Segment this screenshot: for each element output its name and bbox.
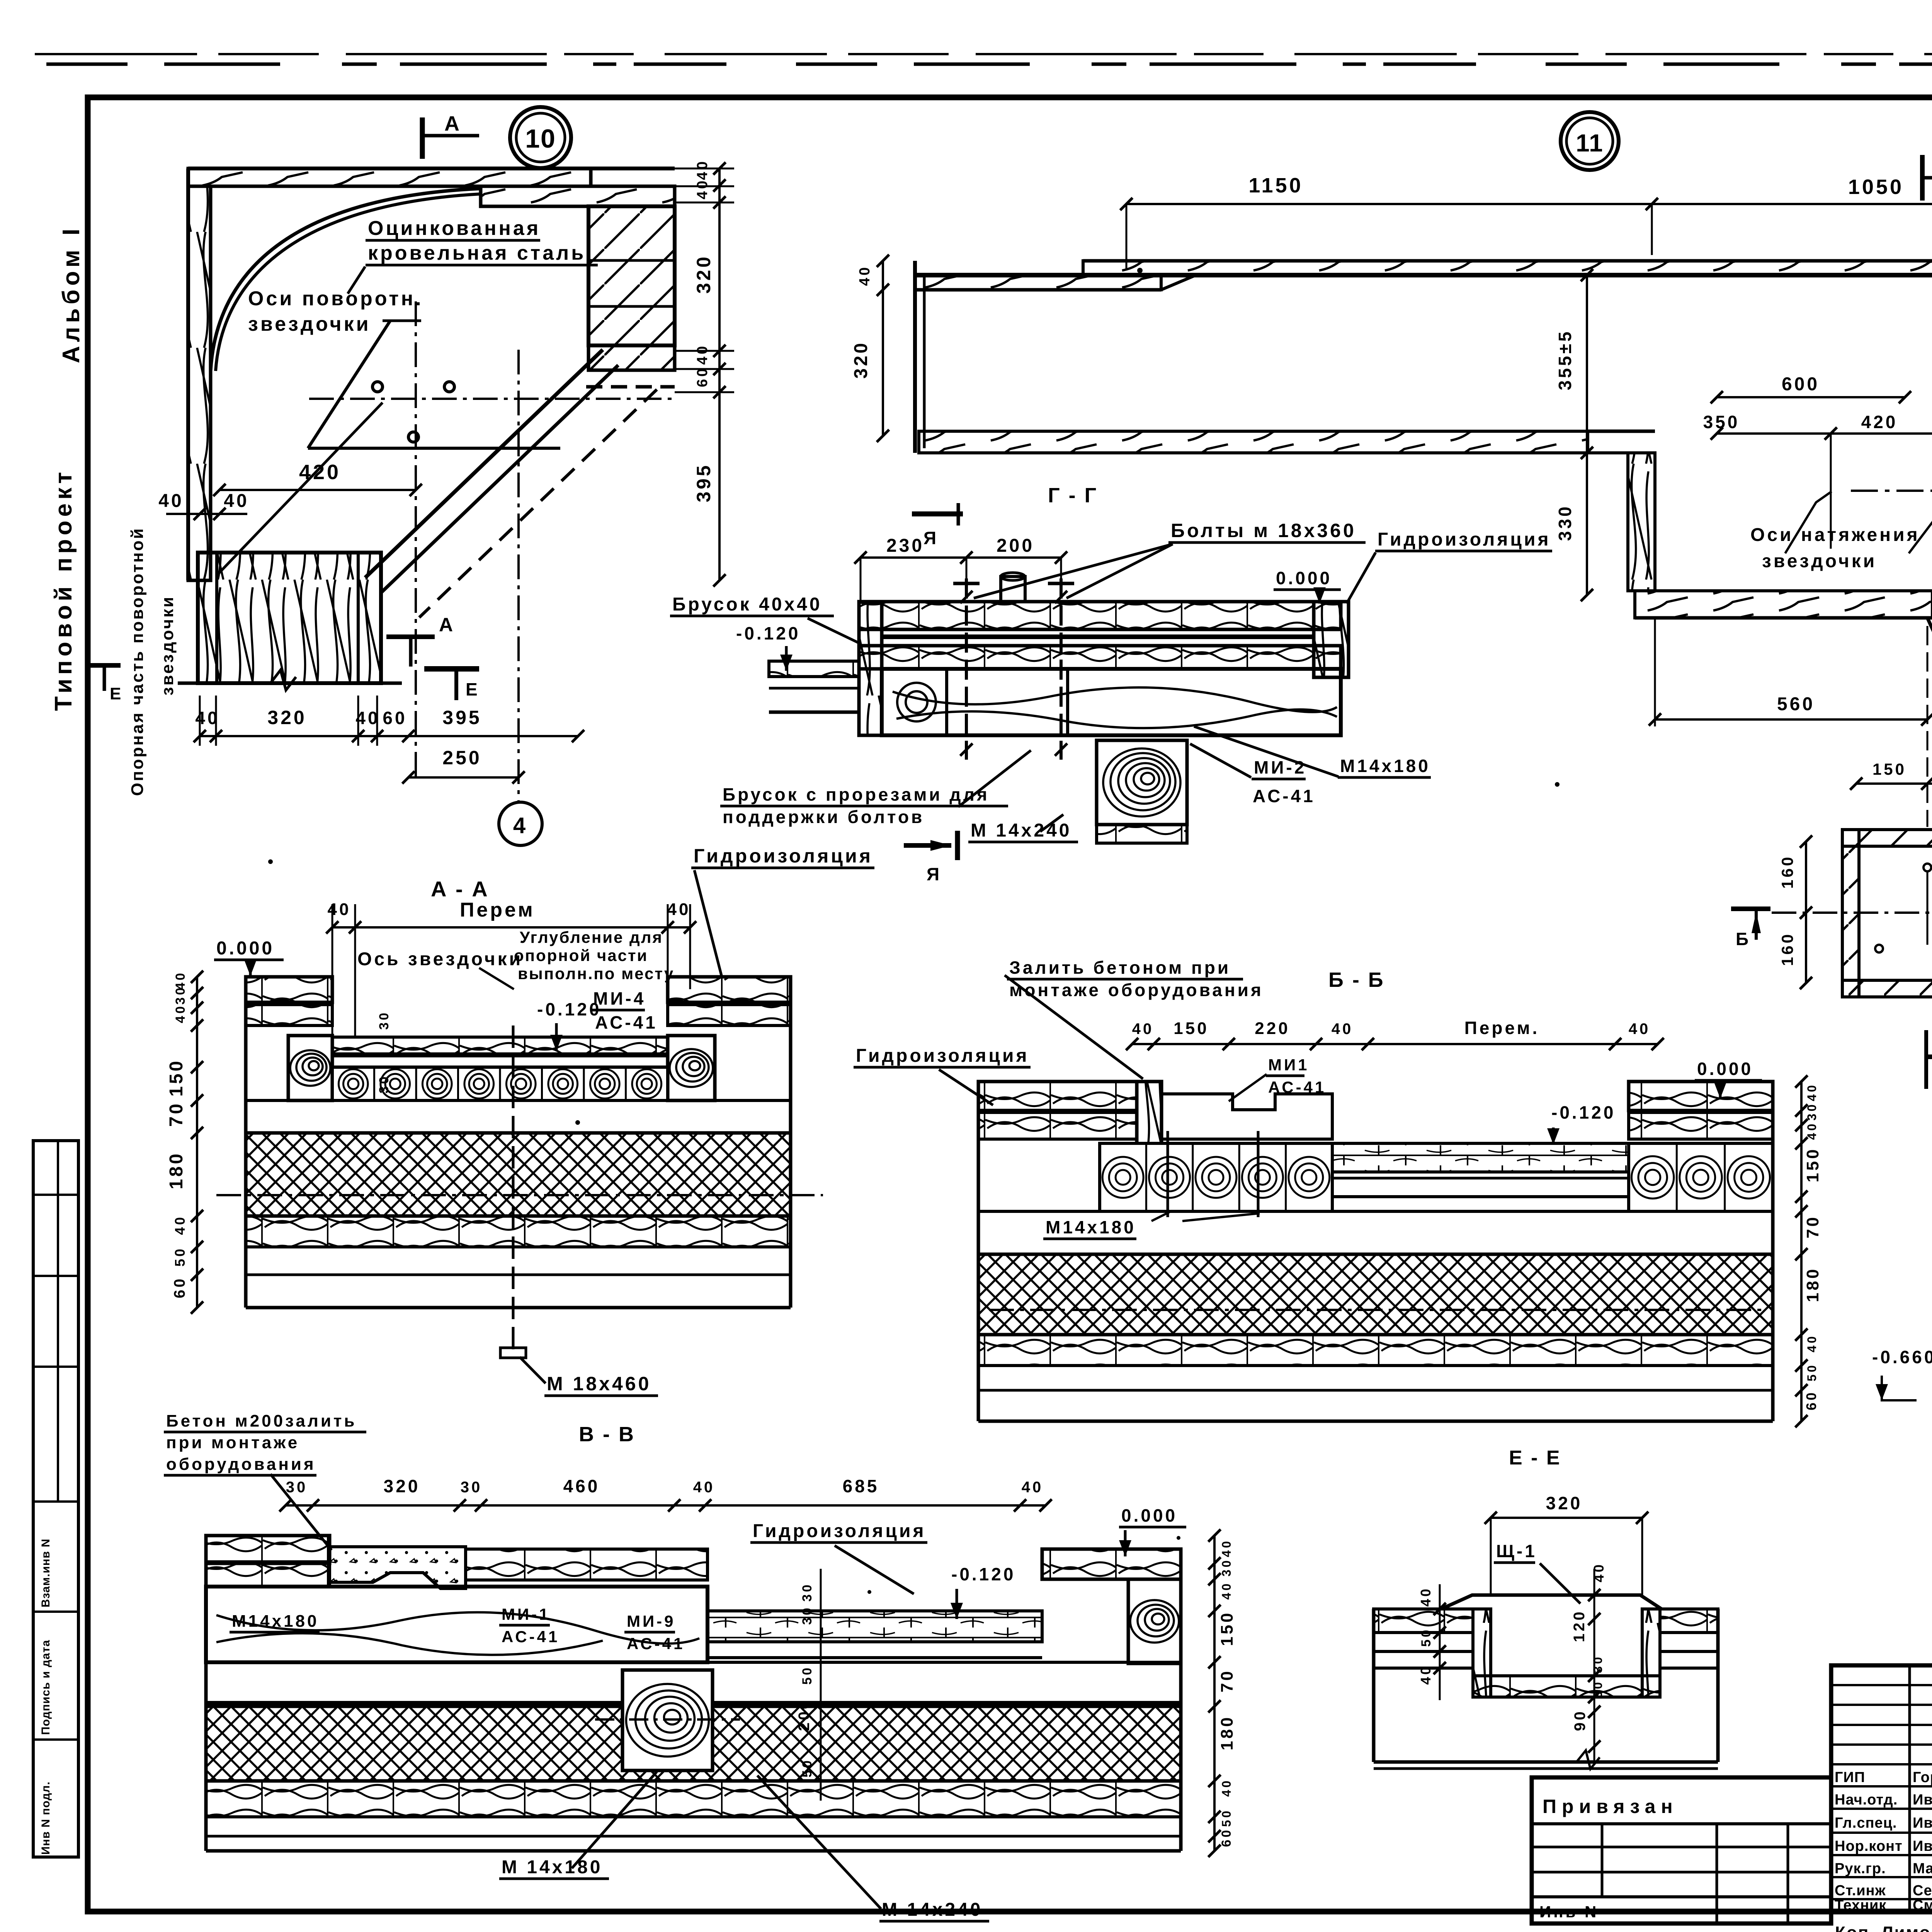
svg-text:600: 600 <box>1782 374 1820 395</box>
concrete pocket <box>330 1547 466 1588</box>
svg-text:Инв N подл.: Инв N подл. <box>39 1781 52 1855</box>
middle lower deck <box>1332 1143 1629 1172</box>
svg-text:30: 30 <box>1591 1655 1605 1673</box>
svg-text:Альбом I: Альбом I <box>58 225 85 363</box>
svg-text:150: 150 <box>1218 1611 1236 1646</box>
big left beam <box>206 1587 707 1662</box>
svg-text:М 14х240: М 14х240 <box>971 820 1072 841</box>
svg-text:40: 40 <box>1629 1020 1651 1037</box>
svg-text:40: 40 <box>1219 1539 1233 1557</box>
svg-text:200: 200 <box>796 1698 813 1731</box>
vertical dims left of leg: 355±5 / 330 <box>1586 275 1588 595</box>
svg-text:40: 40 <box>1805 1121 1819 1140</box>
svg-text:320: 320 <box>851 341 871 379</box>
support post МИ-2 <box>1097 740 1187 825</box>
svg-text:11: 11 <box>1576 129 1604 157</box>
star support bracket outline <box>308 447 560 450</box>
svg-text:420: 420 <box>1861 412 1898 432</box>
corner plan: curved sheet (quarter bend) <box>211 189 480 371</box>
svg-text:320: 320 <box>1546 1493 1583 1513</box>
corner plan: right lower band <box>588 345 675 370</box>
svg-text:395: 395 <box>442 707 481 728</box>
svg-text:Брусок 40х40: Брусок 40х40 <box>672 594 822 615</box>
В-В structure <box>206 1536 330 1563</box>
svg-text:М14х180: М14х180 <box>232 1612 319 1631</box>
svg-text:Я: Я <box>923 528 939 548</box>
step-down right deck <box>707 1611 1042 1642</box>
svg-text:Ось звездочки: Ось звездочки <box>357 949 523 969</box>
svg-text:70: 70 <box>1803 1215 1822 1238</box>
svg-text:А - А: А - А <box>431 877 489 901</box>
svg-text:220: 220 <box>1255 1019 1290 1038</box>
svg-text:40: 40 <box>1591 1562 1607 1582</box>
detail bubble 11 <box>1561 112 1619 170</box>
svg-text:60: 60 <box>383 708 407 728</box>
svg-text:МИ1: МИ1 <box>1268 1056 1310 1074</box>
svg-text:395: 395 <box>693 463 714 502</box>
corner plan: left wall <box>188 186 211 580</box>
svg-text:320: 320 <box>384 1476 420 1496</box>
left end cap <box>913 261 917 453</box>
svg-text:Коп. Лимонова: Коп. Лимонова <box>1835 1923 1932 1932</box>
bottom layers <box>206 1781 1181 1817</box>
svg-text:50: 50 <box>800 1758 815 1777</box>
svg-text:АС-41: АС-41 <box>595 1012 658 1032</box>
svg-text:МИ-1: МИ-1 <box>502 1605 551 1623</box>
150 blocks <box>1100 1143 1332 1211</box>
svg-text:Е: Е <box>110 684 123 703</box>
svg-text:кровельная сталь: кровельная сталь <box>368 242 586 264</box>
svg-text:60: 60 <box>1803 1390 1819 1410</box>
svg-text:Болты м 18х360: Болты м 18х360 <box>1171 520 1356 541</box>
svg-text:М14х180: М14х180 <box>1340 756 1430 776</box>
plan axes dash-dot <box>415 301 417 777</box>
svg-text:-0.120: -0.120 <box>537 999 601 1019</box>
svg-text:40: 40 <box>1332 1020 1354 1037</box>
svg-text:М 18х460: М 18х460 <box>547 1373 651 1395</box>
svg-text:30: 30 <box>1219 1558 1233 1577</box>
bolt holes of star bracket <box>372 382 383 392</box>
180 layer <box>978 1254 1773 1335</box>
svg-text:30: 30 <box>800 1582 815 1602</box>
svg-text:-0.120: -0.120 <box>951 1564 1015 1584</box>
svg-text:40: 40 <box>667 900 691 919</box>
svg-text:Углубление для: Углубление для <box>520 928 663 946</box>
section flag В (top) <box>1920 155 1925 201</box>
corner plan: right vertical block (320) <box>588 206 675 345</box>
svg-text:звездочки: звездочки <box>1762 551 1877 571</box>
flag E (bottom, near 395) <box>424 666 479 672</box>
svg-text:Залить бетоном при: Залить бетоном при <box>1009 957 1231 978</box>
svg-text:выполн.по месту: выполн.по месту <box>518 964 674 983</box>
svg-text:Оси натяжения: Оси натяжения <box>1750 525 1920 545</box>
svg-text:40: 40 <box>1805 1334 1819 1352</box>
svg-text:70: 70 <box>1218 1669 1236 1692</box>
svg-text:Смоленкова: Смоленкова <box>1913 1897 1932 1913</box>
МИ1 plate <box>1162 1094 1332 1139</box>
svg-text:685: 685 <box>843 1476 879 1496</box>
svg-text:звездочки: звездочки <box>158 595 177 696</box>
corner plan: stepped strip right <box>481 186 675 206</box>
pipe stub <box>1001 577 1025 602</box>
right end block <box>1314 602 1349 677</box>
180 layer <box>206 1706 1181 1781</box>
top plank of trough: raised right part <box>1083 261 1932 275</box>
svg-text:30: 30 <box>377 1010 391 1030</box>
dividers in 320 block <box>588 259 675 262</box>
svg-text:Опорная часть поворотной: Опорная часть поворотной <box>128 527 147 796</box>
svg-text:40: 40 <box>1219 1581 1233 1600</box>
svg-text:Рук.гр.: Рук.гр. <box>1835 1861 1886 1877</box>
right elevated part <box>1629 1082 1773 1111</box>
bottom layers <box>978 1335 1773 1366</box>
left margin stamp column <box>33 1141 78 1857</box>
svg-text:Г - Г: Г - Г <box>1048 484 1098 507</box>
wings <box>1374 1609 1473 1633</box>
svg-text:Е: Е <box>466 679 480 699</box>
staff table <box>1831 1665 1932 1912</box>
svg-text:150: 150 <box>1173 1019 1209 1038</box>
svg-text:АС-41: АС-41 <box>627 1634 685 1653</box>
svg-text:Гл.спец.: Гл.спец. <box>1835 1815 1897 1831</box>
svg-text:30: 30 <box>1805 1102 1819 1121</box>
diagonal trough edge in plan <box>365 350 603 578</box>
svg-text:90: 90 <box>1571 1709 1588 1731</box>
right wall of trough <box>1628 453 1655 591</box>
svg-text:460: 460 <box>563 1476 600 1496</box>
deck right of pocket <box>466 1549 707 1580</box>
svg-text:60: 60 <box>171 1277 188 1299</box>
support block <box>622 1670 713 1770</box>
svg-text:Перем: Перем <box>460 899 535 921</box>
svg-text:250: 250 <box>442 747 481 769</box>
svg-text:40: 40 <box>694 179 711 199</box>
svg-text:Гидроизоляция: Гидроизоляция <box>1378 529 1551 550</box>
svg-text:0.000: 0.000 <box>1276 568 1332 588</box>
svg-text:30: 30 <box>286 1479 308 1496</box>
detail bubble 10 <box>510 107 571 168</box>
svg-text:Подпись и дата: Подпись и дата <box>39 1640 52 1735</box>
svg-text:ИвановЮ.И: ИвановЮ.И <box>1913 1838 1932 1854</box>
svg-text:0.000: 0.000 <box>1697 1059 1753 1079</box>
svg-text:Е - Е: Е - Е <box>1509 1447 1561 1469</box>
scan artifact line top <box>35 53 1932 55</box>
svg-text:Оси поворотн.: Оси поворотн. <box>248 287 423 310</box>
svg-text:40: 40 <box>158 491 184 511</box>
svg-text:-0.660: -0.660 <box>1872 1347 1932 1367</box>
svg-text:40: 40 <box>173 1004 188 1023</box>
svg-text:-0.120: -0.120 <box>736 623 800 643</box>
svg-text:150: 150 <box>1872 760 1906 778</box>
svg-text:40: 40 <box>693 1479 715 1496</box>
svg-text:при монтаже: при монтаже <box>166 1433 299 1452</box>
svg-text:Нач.отд.: Нач.отд. <box>1835 1792 1898 1808</box>
svg-text:Нор.конт: Нор.конт <box>1835 1838 1903 1854</box>
svg-text:160: 160 <box>1778 932 1796 966</box>
svg-text:Гидроизоляция: Гидроизоляция <box>753 1521 926 1541</box>
main centerline dash-dot <box>1851 490 1932 492</box>
section flag A (bottom) <box>386 634 435 639</box>
svg-text:40: 40 <box>172 1215 188 1235</box>
svg-text:50: 50 <box>1419 1628 1434 1647</box>
svg-text:30: 30 <box>377 1074 391 1094</box>
svg-text:150: 150 <box>1803 1147 1822 1182</box>
svg-text:200: 200 <box>997 536 1034 556</box>
70 layer <box>978 1211 1773 1254</box>
svg-text:30: 30 <box>461 1479 483 1496</box>
svg-text:560: 560 <box>1777 694 1815 714</box>
svg-text:монтаже оборудования: монтаже оборудования <box>1009 980 1264 1000</box>
svg-text:Гидроизоляция: Гидроизоляция <box>856 1046 1029 1066</box>
counterweight leg band <box>1927 618 1932 1144</box>
svg-text:150: 150 <box>166 1059 187 1097</box>
right dim chain of detail 10 <box>718 168 721 580</box>
svg-text:60: 60 <box>1219 1828 1234 1847</box>
svg-text:50: 50 <box>172 1247 188 1267</box>
Б-Б right dim chain <box>1800 1082 1803 1421</box>
svg-text:Щ-1: Щ-1 <box>1496 1541 1537 1561</box>
svg-text:АС-41: АС-41 <box>1253 786 1315 806</box>
70 band + membrane <box>206 1662 1181 1706</box>
svg-text:50: 50 <box>1805 1363 1819 1381</box>
left step piece <box>769 661 859 677</box>
section flag A (top, detail 10) <box>420 117 425 159</box>
flag Я (bottom) + М14х240 <box>904 843 951 848</box>
svg-text:40: 40 <box>1132 1020 1154 1037</box>
svg-text:30: 30 <box>800 1605 815 1625</box>
svg-text:Бетон м200залить: Бетон м200залить <box>166 1412 357 1430</box>
base slab <box>1372 1609 1376 1762</box>
svg-text:Иванов Н.Г.: Иванов Н.Г. <box>1913 1792 1932 1808</box>
svg-text:Оцинкованная: Оцинкованная <box>368 217 541 240</box>
svg-text:1150: 1150 <box>1248 174 1303 197</box>
lid <box>1441 1595 1662 1609</box>
corner plan: lower wall block <box>198 553 381 683</box>
svg-text:180: 180 <box>1803 1267 1822 1302</box>
svg-text:40: 40 <box>1418 1665 1434 1685</box>
flag E (left) <box>88 663 121 668</box>
svg-text:МИ-2: МИ-2 <box>1254 757 1306 777</box>
top plank left part <box>915 275 1161 290</box>
svg-text:Инв N: Инв N <box>1539 1903 1599 1921</box>
svg-text:30: 30 <box>173 985 188 1005</box>
svg-text:АС-41: АС-41 <box>502 1628 560 1646</box>
svg-text:М14х180: М14х180 <box>1046 1217 1136 1237</box>
svg-text:10: 10 <box>525 124 556 153</box>
svg-text:355±5: 355±5 <box>1555 329 1575 390</box>
svg-text:40: 40 <box>694 159 711 180</box>
В-В right dim chain <box>1213 1536 1216 1851</box>
svg-text:ГИП: ГИП <box>1835 1769 1865 1786</box>
svg-text:Типовой проект: Типовой проект <box>50 468 77 711</box>
svg-text:Привязан: Привязан <box>1543 1796 1678 1817</box>
bottom plank of trough <box>919 431 1588 453</box>
svg-text:-0.120: -0.120 <box>1551 1102 1616 1122</box>
svg-text:180: 180 <box>1218 1715 1236 1750</box>
svg-text:поддержки болтов: поддержки болтов <box>723 807 924 827</box>
svg-text:40: 40 <box>328 900 351 919</box>
svg-text:Я: Я <box>927 864 942 884</box>
В flag bottom <box>1924 1030 1928 1089</box>
svg-text:ИвановЮ.И: ИвановЮ.И <box>1913 1815 1932 1831</box>
svg-text:Ст.инж: Ст.инж <box>1835 1883 1886 1899</box>
hidden edge dashes right <box>586 385 675 389</box>
svg-text:50: 50 <box>800 1665 815 1685</box>
svg-text:А: А <box>439 614 455 636</box>
svg-text:А: А <box>444 112 462 135</box>
svg-text:М 14х240: М 14х240 <box>882 1900 983 1920</box>
svg-text:420: 420 <box>299 461 341 484</box>
svg-text:40: 40 <box>1219 1778 1233 1797</box>
svg-text:40: 40 <box>694 344 711 365</box>
Г-Г deck structure <box>859 602 1341 629</box>
svg-text:4: 4 <box>513 813 528 838</box>
svg-text:0.000: 0.000 <box>1121 1505 1177 1526</box>
svg-text:Горбачева: Горбачева <box>1913 1769 1932 1786</box>
svg-text:МИ-9: МИ-9 <box>627 1612 676 1630</box>
svg-text:Взам.инв N: Взам.инв N <box>39 1539 52 1607</box>
svg-text:Брусок с прорезами для: Брусок с прорезами для <box>723 784 990 804</box>
svg-text:40: 40 <box>224 491 249 511</box>
svg-text:В - В: В - В <box>579 1423 635 1446</box>
pit walls + bottom <box>1473 1609 1491 1697</box>
svg-text:40: 40 <box>857 265 873 286</box>
svg-text:Б - Б: Б - Б <box>1328 968 1385 992</box>
svg-text:160: 160 <box>1778 855 1796 889</box>
svg-text:звездочки: звездочки <box>248 313 371 335</box>
svg-text:40: 40 <box>1022 1479 1044 1496</box>
scan specks <box>1137 268 1143 273</box>
svg-text:70: 70 <box>166 1102 187 1127</box>
svg-text:50: 50 <box>1219 1808 1233 1827</box>
corner plan: top wall strip <box>188 168 591 186</box>
svg-text:Марякушина: Марякушина <box>1913 1861 1932 1877</box>
svg-text:Гидроизоляция: Гидроизоляция <box>694 845 873 867</box>
bottom strip to the right <box>1635 591 1932 618</box>
svg-text:230: 230 <box>886 536 924 556</box>
svg-text:Техник: Техник <box>1835 1897 1886 1913</box>
svg-text:180: 180 <box>166 1151 187 1189</box>
Б flags <box>1731 906 1770 911</box>
svg-text:Сергунова: Сергунова <box>1913 1883 1932 1899</box>
svg-text:М 14х180: М 14х180 <box>502 1857 603 1878</box>
bolts <box>965 578 968 760</box>
svg-text:1050: 1050 <box>1848 175 1904 199</box>
Б-Б structure <box>978 1082 1137 1111</box>
section flag Я (top of Г-Г) <box>912 512 963 517</box>
svg-text:40: 40 <box>1418 1587 1434 1607</box>
svg-text:120: 120 <box>1571 1609 1588 1642</box>
svg-text:Перем.: Перем. <box>1464 1018 1540 1038</box>
svg-text:оборудования: оборудования <box>166 1455 316 1474</box>
svg-text:Б: Б <box>1736 929 1751 949</box>
svg-text:опорной части: опорной части <box>514 946 648 964</box>
node bubble 4 <box>499 802 542 845</box>
A-A floor structure <box>246 977 332 1002</box>
svg-text:320: 320 <box>267 707 306 728</box>
square support (Б-Б cut) <box>1842 830 1932 846</box>
svg-text:0.000: 0.000 <box>216 938 274 959</box>
Привязан box <box>1532 1777 1831 1923</box>
svg-text:320: 320 <box>693 255 714 294</box>
svg-text:330: 330 <box>1555 504 1575 541</box>
vertical dims 40/320 at left end <box>882 261 884 436</box>
main beam with cut channel <box>882 669 1341 735</box>
svg-text:40: 40 <box>1805 1083 1819 1101</box>
right elevated part <box>1042 1549 1181 1579</box>
